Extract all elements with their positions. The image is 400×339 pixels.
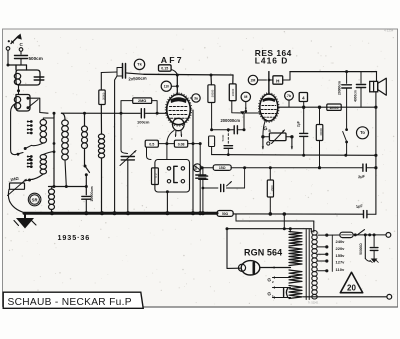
right rail: [374, 106, 377, 215]
resistor R5: [209, 136, 215, 155]
wire switch to bus: [166, 190, 169, 212]
grid wire: [61, 112, 166, 115]
svg-text:10000cm: 10000cm: [90, 186, 94, 201]
indicator 110: [161, 81, 179, 91]
wire grid to tuning cap: [121, 113, 128, 153]
capacitor block: [199, 168, 208, 213]
svg-text:RGN 564: RGN 564: [244, 248, 282, 258]
resistor R2: [152, 168, 159, 185]
indicator 2M: [248, 75, 270, 84]
svg-text:10000: 10000: [329, 106, 338, 110]
ground bus: [24, 211, 286, 216]
svg-text:2MΩ: 2MΩ: [138, 99, 146, 103]
svg-text:SCHAUB - NECKAR Fu.P: SCHAUB - NECKAR Fu.P: [8, 297, 132, 308]
svg-text:M: M: [244, 95, 247, 99]
svg-text:30000: 30000: [231, 88, 235, 96]
tube RES164: [259, 93, 280, 123]
band switch S1a: [27, 97, 39, 109]
resistor 4: [299, 93, 307, 108]
wire L4 right rail: [53, 112, 56, 187]
svg-text:127v: 127v: [336, 260, 346, 265]
capacitor 6uF: [194, 142, 206, 213]
transformer core: [306, 230, 309, 300]
svg-text:AF7: AF7: [161, 55, 184, 65]
tube RES164 label: [255, 48, 292, 66]
tapped coil L4 contacts: [27, 155, 33, 168]
svg-text:SR: SR: [32, 197, 38, 202]
svg-text:0.3: 0.3: [154, 173, 158, 177]
capacitor 1uF: [356, 204, 376, 218]
svg-text:220v: 220v: [336, 246, 346, 251]
capacitor 20000cm: [337, 72, 351, 129]
coupling node: [240, 111, 260, 114]
tube AF7 label: [161, 55, 184, 65]
label G2: [267, 277, 274, 284]
resistor 0.08: [167, 140, 200, 147]
tube AF7: [165, 93, 191, 131]
antenna terminal A1: [6, 47, 10, 64]
trimmer 2x500cm: [101, 64, 147, 82]
title box: [3, 292, 143, 308]
wire antenna down-left: [11, 104, 23, 156]
padder capacitor: [34, 77, 44, 80]
svg-text:2μF: 2μF: [358, 175, 366, 180]
resistor 2M: [121, 98, 157, 113]
svg-text:500cm: 500cm: [29, 56, 43, 61]
wire anode: [260, 266, 291, 269]
capacitor trimmer lead: [115, 76, 117, 213]
label G1: [267, 291, 274, 298]
switch S3: [343, 128, 348, 155]
coil L5: [61, 113, 68, 186]
mains terminal: [386, 233, 391, 238]
wire plate supply: [144, 74, 233, 77]
antenna coil L2 loop: [16, 95, 30, 112]
svg-text:240v: 240v: [336, 239, 346, 244]
antenna coil L1 loop: [16, 65, 40, 85]
capacitor 100cm: [137, 109, 150, 125]
AF7 cathode wire: [165, 131, 174, 146]
mains switch: [355, 230, 386, 237]
bus wire right: [233, 213, 363, 215]
resistor 1500: [267, 168, 274, 214]
heater arrows: [262, 137, 293, 149]
resistor 0.5: [145, 140, 167, 159]
svg-text:20: 20: [347, 284, 356, 293]
indicator 7b: [285, 91, 294, 107]
capacitor 200000cm: [210, 113, 245, 134]
capacitor 2uF plate: [296, 107, 307, 155]
tube RGN564 label: [244, 248, 282, 258]
svg-text:4·1234: 4·1234: [384, 29, 394, 33]
wire mains bottom: [303, 294, 392, 304]
transformer secondary: [312, 231, 317, 300]
label GB: [263, 126, 271, 133]
winding lead 2: [273, 276, 291, 279]
fuse: [340, 232, 357, 237]
label 1935-36: [58, 233, 91, 242]
switch arm S1b: [24, 145, 32, 150]
tapped coil L3: [31, 113, 54, 145]
capacitor mains: [370, 235, 378, 259]
svg-text:0.08: 0.08: [178, 142, 185, 146]
tapped coil L3 contacts: [27, 120, 33, 134]
capacitor 10000cm: [82, 186, 94, 213]
svg-text:50000Ω: 50000Ω: [359, 243, 363, 255]
capacitor 4000cm: [354, 72, 366, 108]
tube AF7 top cap: [176, 75, 178, 95]
resistor R1: [99, 73, 106, 105]
antenna terminal C: [19, 42, 23, 54]
indicator To: [357, 127, 369, 139]
resistor 10000: [327, 104, 341, 110]
node A2: [17, 85, 20, 95]
svg-text:3a: 3a: [194, 96, 198, 100]
capacitor 500cm: [15, 56, 43, 66]
coil L7: [82, 112, 88, 149]
transformer winding c: [289, 270, 302, 283]
svg-text:5000: 5000: [221, 134, 225, 141]
resistor 40000: [316, 107, 323, 168]
transformer winding d: [289, 286, 302, 299]
wire screen drop: [192, 110, 195, 213]
ground mains: [370, 259, 378, 263]
tuning capacitor C1: [120, 151, 136, 213]
wire L2 to grid line: [28, 98, 48, 113]
trimmer branch: [203, 168, 245, 192]
tube RGN564: [227, 261, 260, 275]
transformer primary winding a: [289, 232, 302, 247]
resistor 50000: [359, 235, 370, 261]
svg-text:7b: 7b: [287, 94, 291, 98]
transformer taps: [318, 234, 329, 273]
SR scale lamp: [28, 193, 41, 206]
Tk indicator: [134, 59, 144, 69]
indicator M: [241, 92, 250, 112]
svg-text:1500: 1500: [270, 185, 274, 191]
choke H: [269, 72, 290, 85]
svg-text:Tk: Tk: [137, 62, 142, 67]
capacitor heater: [284, 289, 288, 297]
svg-text:50000: 50000: [102, 92, 106, 100]
resistor bus: [217, 211, 233, 217]
transformer primary winding b: [289, 248, 302, 266]
svg-text:200000cm: 200000cm: [221, 118, 241, 123]
band switch S1c: [24, 158, 31, 181]
resistor 15: [213, 165, 231, 171]
svg-text:50000: 50000: [211, 89, 215, 97]
ground: [14, 213, 36, 228]
svg-text:155v: 155v: [336, 253, 346, 258]
svg-text:0.15: 0.15: [161, 67, 168, 71]
svg-text:2x500cm: 2x500cm: [128, 76, 147, 82]
voltage labels: [336, 239, 346, 272]
svg-text:0.5: 0.5: [149, 142, 154, 146]
label wire A: [7, 64, 27, 71]
antenna coil L1: [14, 73, 20, 84]
coil L6: [49, 187, 55, 213]
svg-text:To: To: [360, 130, 365, 135]
line A wire: [212, 154, 376, 157]
wire rectifier frame: [226, 214, 312, 268]
tapped coil L4: [28, 152, 54, 182]
indicator 3a: [190, 94, 200, 102]
loudspeaker: [370, 72, 387, 108]
svg-text:40000: 40000: [319, 128, 323, 136]
svg-text:1935·36: 1935·36: [58, 233, 91, 242]
tube RES164 cathode wire: [263, 120, 266, 137]
svg-text:20000cm: 20000cm: [337, 81, 341, 95]
phono terminal: [193, 164, 201, 172]
resistor R3: [208, 75, 215, 130]
wire pot to ground bus: [8, 189, 24, 212]
tube RES164 top cap: [268, 72, 270, 95]
svg-text:4000cm: 4000cm: [354, 90, 358, 102]
wire heater line: [49, 185, 88, 188]
svg-text:110: 110: [164, 85, 169, 89]
resistor 0.15: [159, 65, 178, 75]
svg-text:110v: 110v: [336, 267, 345, 272]
wire primary feed: [236, 214, 314, 232]
capacitor 2uF out: [358, 164, 376, 179]
resistor R4: [229, 75, 243, 113]
potentiometer 1M: [8, 175, 27, 195]
antenna coil L2: [14, 97, 20, 110]
voltage selector bracket: [327, 235, 340, 272]
antenna: [8, 34, 22, 44]
coil L8: [98, 105, 104, 213]
switch S2: [84, 149, 90, 195]
svg-text:2M: 2M: [251, 78, 256, 82]
svg-text:2μF: 2μF: [296, 121, 300, 127]
winding lead 4: [273, 296, 291, 299]
svg-text:15Ω: 15Ω: [219, 166, 226, 170]
triangle 20: [340, 272, 362, 292]
wire top right: [269, 70, 377, 94]
svg-text:Tr. 52342: Tr. 52342: [308, 302, 319, 305]
svg-text:50Ω: 50Ω: [222, 212, 229, 216]
winding lead 3: [273, 286, 291, 289]
tube AF7 heater pins: [175, 131, 183, 137]
line B wire: [201, 166, 363, 169]
svg-text:100cm: 100cm: [137, 120, 150, 125]
capacitor 5000cm: [221, 130, 232, 156]
plate wire: [278, 106, 376, 109]
variable resistor GB: [261, 130, 293, 145]
svg-text:L416 D: L416 D: [255, 56, 288, 66]
band switch block: [155, 144, 190, 192]
